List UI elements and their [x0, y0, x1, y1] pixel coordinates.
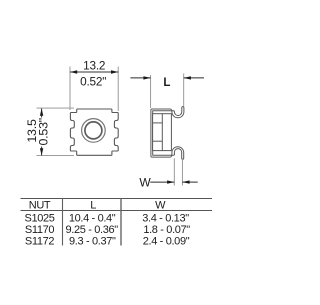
top dimension extension line right	[117, 67, 119, 112]
front view: cage nut outline	[70, 109, 118, 155]
left dimension arrow top	[40, 109, 43, 116]
L dimension left arrow line	[130, 77, 150, 79]
svg-text:S1172: S1172	[25, 236, 54, 248]
table column separator 2	[120, 199, 122, 246]
svg-text:9.3 - 0.37": 9.3 - 0.37"	[69, 236, 116, 248]
svg-text:2.4 - 0.09": 2.4 - 0.09"	[143, 236, 190, 248]
L dimension extension line right	[183, 74, 185, 107]
W dimension left arrow line	[150, 181, 174, 183]
left dimension line upper segment	[41, 109, 43, 118]
svg-text:W: W	[155, 200, 166, 212]
left dimension extension line top	[37, 107, 75, 109]
W dimension right arrow line	[182, 181, 197, 183]
W dimension left arrowhead	[167, 180, 174, 183]
svg-text:9.25 - 0.36": 9.25 - 0.36"	[66, 224, 119, 236]
W dimension extension line left	[173, 158, 175, 185]
svg-text:L: L	[90, 200, 96, 212]
svg-text:NUT: NUT	[29, 200, 51, 212]
table column separator 1	[62, 199, 64, 246]
L dimension right arrowhead	[184, 76, 191, 79]
side view: nut body outline	[153, 114, 172, 151]
L dimension extension line left	[150, 75, 152, 108]
top dimension line	[70, 71, 118, 73]
L dimension left arrowhead	[143, 76, 150, 79]
svg-text:1.8 - 0.07": 1.8 - 0.07"	[143, 224, 190, 236]
svg-text:3.4 - 0.13": 3.4 - 0.13"	[142, 213, 189, 225]
left dimension extension line bottom	[37, 154, 75, 156]
L dimension right arrow line	[184, 77, 204, 79]
svg-text:S1170: S1170	[25, 224, 54, 236]
top dimension extension line left	[69, 67, 71, 111]
top dimension arrow left	[70, 70, 77, 73]
front view: outer circle	[82, 119, 106, 143]
svg-text:W: W	[139, 176, 151, 190]
svg-text:0.53": 0.53"	[36, 118, 50, 146]
side view: cage profile (strip from top hook tip to bottom hook tip)	[151, 107, 184, 160]
side view: nut lower tab line	[153, 140, 163, 142]
table top border	[21, 198, 213, 200]
svg-text:0.52": 0.52"	[80, 74, 106, 88]
svg-text:10.4 - 0.4": 10.4 - 0.4"	[69, 213, 116, 225]
svg-text:S1025: S1025	[24, 213, 54, 225]
table header underline	[21, 210, 213, 212]
side view: nut upper tab line	[153, 122, 163, 124]
left dimension line lower segment	[41, 147, 43, 156]
W dimension right arrowhead	[182, 180, 189, 183]
top dimension arrow right	[111, 70, 118, 73]
side view: nut vertical divider	[161, 114, 163, 151]
left dimension arrow bottom	[40, 148, 43, 155]
svg-text:L: L	[163, 77, 170, 89]
front view: inner circle (thread hole)	[85, 122, 102, 139]
W dimension extension line right	[181, 158, 183, 185]
svg-text:13.2: 13.2	[83, 58, 105, 72]
